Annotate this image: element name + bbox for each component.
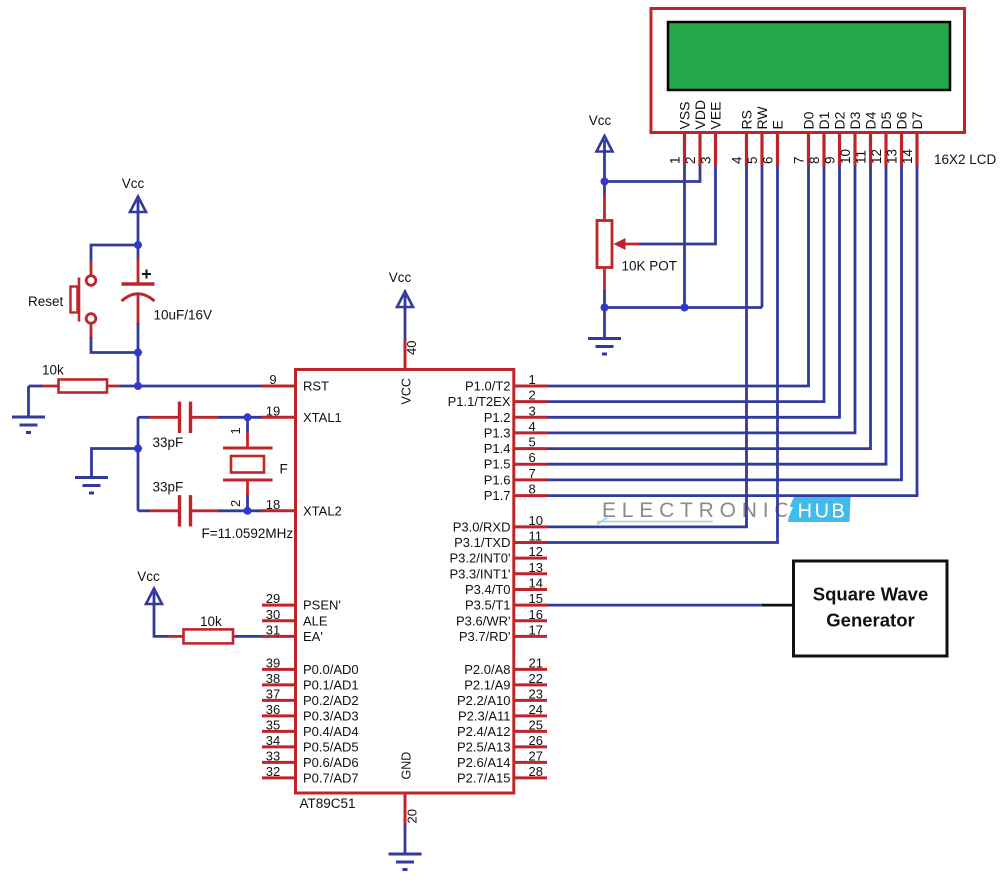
- svg-text:F=11.0592MHz: F=11.0592MHz: [202, 526, 294, 541]
- svg-text:30: 30: [266, 607, 280, 622]
- svg-text:7: 7: [529, 466, 536, 481]
- svg-text:P2.4/A12: P2.4/A12: [457, 724, 511, 739]
- ground (IC): [389, 853, 422, 856]
- svg-text:VCC: VCC: [400, 378, 414, 404]
- svg-text:XTAL1: XTAL1: [303, 410, 342, 425]
- capacitor 33pF (top): [178, 402, 181, 433]
- svg-text:25: 25: [529, 717, 543, 732]
- LCD pin 4 RS: [730, 110, 755, 166]
- LCD pin 5 RW: [745, 106, 770, 166]
- svg-text:D4: D4: [863, 111, 879, 129]
- svg-text:33pF: 33pF: [153, 435, 184, 450]
- svg-text:6: 6: [761, 156, 776, 164]
- svg-text:P3.2/INT0': P3.2/INT0': [449, 551, 510, 566]
- pin 25 P2.4/A12: [457, 717, 547, 739]
- pin 5 P1.4: [484, 435, 547, 457]
- svg-text:P0.6/AD6: P0.6/AD6: [303, 755, 359, 770]
- IC AT89C51 body: [296, 370, 514, 794]
- pin 38 P0.1/AD1: [262, 671, 359, 693]
- pin 37 P0.2/AD2: [262, 686, 359, 708]
- svg-text:10uF/16V: 10uF/16V: [154, 308, 213, 323]
- svg-text:P2.3/A11: P2.3/A11: [458, 708, 511, 723]
- svg-text:12: 12: [529, 544, 543, 559]
- svg-text:D6: D6: [894, 111, 910, 129]
- LCD green screen: [668, 22, 950, 90]
- svg-text:34: 34: [266, 733, 280, 748]
- svg-text:P3.4/T0: P3.4/T0: [465, 582, 511, 597]
- ground (pot): [588, 337, 621, 340]
- svg-text:15: 15: [529, 591, 543, 606]
- LCD pin 2 VDD: [683, 100, 708, 166]
- svg-text:31: 31: [266, 622, 280, 637]
- svg-text:P1.0/T2: P1.0/T2: [465, 379, 511, 394]
- pot wiper arrow: [622, 243, 640, 246]
- watermark ELECTRONICS HUB: [597, 496, 851, 525]
- wire D4 to P1.4: [547, 166, 871, 449]
- svg-text:P1.4: P1.4: [484, 441, 511, 456]
- pin 39 P0.0/AD0: [262, 655, 359, 677]
- pin 40 VCC: [404, 338, 407, 371]
- svg-text:6: 6: [529, 450, 536, 465]
- wire D5 to P1.5: [547, 166, 886, 464]
- svg-text:19: 19: [266, 403, 280, 418]
- svg-text:4: 4: [529, 419, 536, 434]
- LCD module 16X2: [651, 9, 965, 133]
- pin 2 P1.1/T2EX: [448, 388, 547, 410]
- junction dot rail: [134, 445, 142, 453]
- svg-text:35: 35: [266, 717, 280, 732]
- svg-text:10: 10: [529, 513, 543, 528]
- LCD pin 8 D1: [807, 111, 832, 166]
- svg-text:VDD: VDD: [692, 100, 708, 130]
- svg-text:40: 40: [404, 341, 419, 355]
- electrolytic capacitor C 10uF/16V: [137, 245, 140, 260]
- wire D3 to P1.3: [547, 166, 855, 433]
- svg-text:13: 13: [529, 560, 543, 575]
- svg-text:9: 9: [269, 372, 276, 387]
- svg-text:10: 10: [838, 149, 853, 164]
- pin 35 P0.4/AD4: [262, 717, 359, 739]
- resistor 10k (EA): [168, 635, 184, 638]
- svg-text:2: 2: [228, 500, 243, 507]
- pin 30 ALE: [262, 607, 328, 629]
- pin 32 P0.7/AD7: [262, 764, 359, 786]
- pin 13 P3.3/INT1': [449, 560, 547, 582]
- LCD pin 9 D2: [823, 111, 848, 166]
- svg-text:Vcc: Vcc: [589, 113, 612, 128]
- wire VSS to ground rail: [683, 166, 686, 308]
- svg-text:7: 7: [792, 156, 807, 164]
- junction dot pot bottom: [601, 304, 609, 312]
- svg-text:33: 33: [266, 748, 280, 763]
- svg-text:RW: RW: [754, 106, 770, 130]
- svg-text:36: 36: [266, 702, 280, 717]
- ground (crystal): [75, 476, 108, 479]
- wire D1 to P1.1: [547, 166, 824, 402]
- pin 29 PSEN': [262, 591, 341, 613]
- LCD pin 11 D4: [854, 111, 879, 166]
- svg-text:P0.5/AD5: P0.5/AD5: [303, 739, 359, 754]
- pin 18 XTAL2: [262, 497, 342, 519]
- LCD pin 14 D7: [900, 111, 925, 166]
- svg-text:D0: D0: [801, 111, 817, 129]
- svg-text:26: 26: [529, 733, 543, 748]
- junction dot pot vcc: [601, 178, 609, 186]
- svg-text:PSEN': PSEN': [303, 598, 341, 613]
- svg-text:10k: 10k: [42, 363, 64, 378]
- svg-text:5: 5: [529, 435, 536, 450]
- svg-text:16: 16: [529, 607, 543, 622]
- LCD pin 1 VSS: [668, 101, 693, 166]
- svg-text:P2.0/A8: P2.0/A8: [464, 662, 510, 677]
- pin 24 P2.3/A11: [458, 702, 547, 724]
- wire D2 to P1.2: [547, 166, 840, 417]
- tee to ground: [92, 449, 139, 479]
- pin 20 GND: [404, 792, 407, 826]
- LCD pin 10 D3: [838, 111, 863, 166]
- wire RST: [138, 385, 264, 388]
- wire D7 to P1.7: [547, 166, 917, 496]
- svg-text:2: 2: [529, 388, 536, 403]
- ground rail under pot: [605, 306, 763, 309]
- plus sign: [142, 273, 151, 275]
- svg-text:28: 28: [529, 764, 543, 779]
- svg-text:P3.1/TXD: P3.1/TXD: [454, 535, 510, 550]
- pin 12 P3.2/INT0': [449, 544, 547, 566]
- LCD pin 12 D5: [869, 111, 894, 166]
- svg-text:P0.2/AD2: P0.2/AD2: [303, 693, 359, 708]
- svg-text:37: 37: [266, 686, 280, 701]
- pin 31 EA': [262, 622, 323, 644]
- svg-text:D3: D3: [847, 111, 863, 129]
- svg-text:P1.7: P1.7: [484, 488, 511, 503]
- capacitor 33pF (bottom): [178, 495, 181, 526]
- svg-text:ALE: ALE: [303, 613, 328, 628]
- pin 10 P3.0/RXD: [453, 513, 547, 535]
- svg-text:8: 8: [807, 156, 822, 164]
- svg-text:P1.1/T2EX: P1.1/T2EX: [448, 394, 511, 409]
- svg-text:11: 11: [854, 150, 869, 164]
- wire pot bottom: [603, 268, 606, 293]
- svg-text:E: E: [770, 120, 786, 129]
- pushbutton Reset: [86, 276, 96, 286]
- svg-text:P0.0/AD0: P0.0/AD0: [303, 662, 359, 677]
- svg-text:11: 11: [529, 529, 543, 544]
- pin 3 P1.2: [484, 403, 547, 425]
- LCD pin 3 VEE: [699, 101, 724, 166]
- junction dot RST node: [134, 382, 142, 390]
- pin 8 P1.7: [484, 482, 547, 504]
- junction dot XTAL1: [244, 413, 252, 421]
- wire VEE to pot wiper: [639, 166, 716, 244]
- svg-text:P0.7/AD7: P0.7/AD7: [303, 770, 359, 785]
- svg-text:P2.1/A9: P2.1/A9: [464, 677, 510, 692]
- resistor 10k (RST): [29, 385, 44, 388]
- svg-text:P0.4/AD4: P0.4/AD4: [303, 724, 359, 739]
- svg-text:22: 22: [529, 671, 543, 686]
- svg-text:P2.2/A10: P2.2/A10: [457, 693, 511, 708]
- svg-text:Vcc: Vcc: [137, 569, 160, 584]
- svg-text:P2.6/A14: P2.6/A14: [457, 755, 511, 770]
- wire RW to ground rail: [761, 166, 764, 308]
- crystal F: [246, 417, 249, 432]
- svg-text:GND: GND: [400, 752, 414, 780]
- svg-text:38: 38: [266, 671, 280, 686]
- wire switch bottom: [90, 324, 93, 339]
- svg-text:24: 24: [529, 702, 543, 717]
- svg-text:P2.5/A13: P2.5/A13: [457, 739, 511, 754]
- wire D6 to P1.6: [547, 166, 902, 480]
- wire RS to P3.0: [547, 166, 747, 527]
- Square Wave Generator box: [794, 561, 948, 656]
- svg-text:18: 18: [266, 497, 280, 512]
- svg-text:13: 13: [885, 149, 900, 164]
- wire XTAL2 line: [138, 509, 151, 512]
- svg-text:4: 4: [730, 156, 745, 164]
- svg-text:3: 3: [699, 156, 714, 164]
- svg-text:12: 12: [869, 149, 884, 164]
- svg-text:ELECTRONICS: ELECTRONICS: [602, 499, 815, 522]
- svg-text:39: 39: [266, 655, 280, 670]
- pin 28 P2.7/A15: [457, 764, 547, 786]
- svg-text:P1.2: P1.2: [484, 410, 511, 425]
- pin 34 P0.5/AD5: [262, 733, 359, 755]
- svg-text:P3.3/INT1': P3.3/INT1': [449, 566, 510, 581]
- pin 19 XTAL1: [262, 403, 342, 425]
- svg-text:D1: D1: [816, 111, 832, 129]
- junction dot XTAL2: [244, 507, 252, 515]
- pin 4 P1.3: [484, 419, 547, 441]
- LCD pin 7 D0: [792, 111, 817, 166]
- svg-text:Vcc: Vcc: [389, 270, 412, 285]
- svg-text:Square Wave: Square Wave: [813, 584, 929, 605]
- svg-text:EA': EA': [303, 629, 323, 644]
- wire XTAL1 line: [138, 416, 151, 419]
- svg-text:20: 20: [405, 809, 420, 823]
- svg-text:1: 1: [529, 372, 536, 387]
- wire VDD to Vcc node: [605, 166, 701, 182]
- svg-text:14: 14: [529, 576, 543, 591]
- pin 17 P3.7/RD': [459, 622, 547, 644]
- pin 23 P2.2/A10: [457, 686, 547, 708]
- svg-text:10K POT: 10K POT: [622, 259, 678, 274]
- wire rail to ground: [603, 308, 606, 340]
- svg-text:P3.7/RD': P3.7/RD': [459, 629, 511, 644]
- pin 15 P3.5/T1: [465, 591, 547, 613]
- svg-text:P1.5: P1.5: [484, 457, 511, 472]
- wire D0 to P1.0: [547, 166, 809, 386]
- svg-text:RST: RST: [303, 379, 329, 394]
- potentiometer R 10K body: [597, 221, 612, 268]
- pin 7 P1.6: [484, 466, 547, 488]
- svg-text:P1.6: P1.6: [484, 472, 511, 487]
- svg-text:Generator: Generator: [826, 610, 914, 631]
- svg-text:F: F: [280, 462, 288, 477]
- svg-text:P3.5/T1: P3.5/T1: [465, 598, 511, 613]
- svg-text:VSS: VSS: [677, 101, 693, 129]
- wire E to P3.1: [547, 166, 778, 543]
- wire Vcc to pot top: [603, 182, 606, 197]
- svg-text:8: 8: [529, 482, 536, 497]
- wire to ground: [27, 386, 30, 418]
- ground (10k): [12, 416, 45, 419]
- wire node to RST node: [137, 353, 140, 387]
- svg-text:P0.1/AD1: P0.1/AD1: [303, 677, 359, 692]
- junction dot top (reset/cap): [134, 241, 142, 249]
- LCD pin 13 D6: [885, 111, 910, 166]
- svg-text:21: 21: [529, 655, 543, 670]
- svg-text:14: 14: [900, 148, 915, 164]
- wire top node to switch: [91, 245, 138, 263]
- svg-text:17: 17: [529, 622, 543, 637]
- pin 33 P0.6/AD6: [262, 748, 359, 770]
- svg-text:1: 1: [668, 156, 683, 164]
- svg-text:23: 23: [529, 686, 543, 701]
- svg-text:P1.3: P1.3: [484, 425, 511, 440]
- LCD pin 6 E: [761, 120, 786, 166]
- svg-text:2: 2: [683, 156, 698, 164]
- svg-text:Reset: Reset: [28, 294, 64, 309]
- pin 14 P3.4/T0: [465, 576, 547, 598]
- junction dot bottom (reset/cap): [134, 349, 142, 357]
- svg-text:D2: D2: [832, 111, 848, 129]
- pin 6 P1.5: [484, 450, 547, 472]
- pin 36 P0.3/AD3: [262, 702, 359, 724]
- svg-text:29: 29: [266, 591, 280, 606]
- pin 1 P1.0/T2: [465, 372, 547, 394]
- svg-text:P3.6/WR': P3.6/WR': [456, 613, 511, 628]
- svg-text:HUB: HUB: [798, 501, 848, 523]
- svg-text:D7: D7: [909, 111, 925, 129]
- svg-text:1: 1: [228, 427, 243, 434]
- svg-text:D5: D5: [878, 111, 894, 129]
- svg-text:16X2 LCD: 16X2 LCD: [934, 152, 997, 167]
- svg-text:10k: 10k: [200, 614, 222, 629]
- svg-text:5: 5: [745, 156, 760, 164]
- svg-text:9: 9: [823, 156, 838, 164]
- pin 11 P3.1/TXD: [454, 529, 547, 551]
- left rail between caps: [137, 417, 140, 511]
- pin 9 RST: [262, 372, 329, 394]
- pin 21 P2.0/A8: [464, 655, 547, 677]
- pin 26 P2.5/A13: [457, 733, 547, 755]
- svg-text:27: 27: [529, 748, 543, 763]
- svg-text:XTAL2: XTAL2: [303, 503, 342, 518]
- pin 16 P3.6/WR': [456, 607, 547, 629]
- svg-text:Vcc: Vcc: [122, 176, 145, 191]
- svg-text:32: 32: [266, 764, 280, 779]
- svg-text:RS: RS: [739, 110, 755, 129]
- svg-text:P2.7/A15: P2.7/A15: [457, 770, 511, 785]
- wire P3.5/T1 to generator: [547, 604, 763, 607]
- svg-text:AT89C51: AT89C51: [300, 796, 356, 811]
- pin 22 P2.1/A9: [464, 671, 547, 693]
- junction dot VSS rail: [681, 304, 689, 312]
- svg-text:VEE: VEE: [708, 101, 724, 129]
- pin 27 P2.6/A14: [457, 748, 547, 770]
- svg-text:33pF: 33pF: [153, 480, 184, 495]
- svg-text:P3.0/RXD: P3.0/RXD: [453, 519, 511, 534]
- svg-text:P0.3/AD3: P0.3/AD3: [303, 708, 359, 723]
- svg-text:3: 3: [529, 403, 536, 418]
